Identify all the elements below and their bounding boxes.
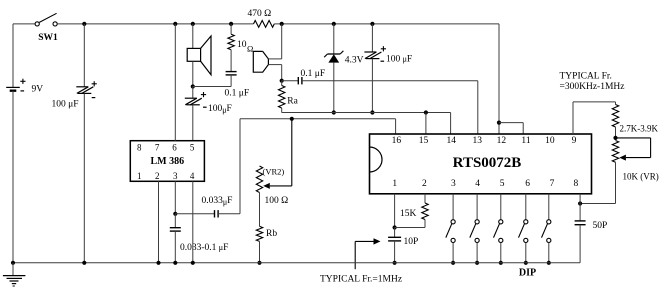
svg-text:7: 7 [155,143,160,153]
svg-text:DIP: DIP [519,268,536,279]
DIP switch S1 [446,194,455,263]
node DIP S2 ground [475,261,479,265]
capacitor 0.033uF [175,196,240,218]
resistor 10 ohm [228,24,253,54]
svg-text:10P: 10P [404,237,419,247]
svg-text:Rb: Rb [266,229,277,239]
wire top rail left segment [13,23,35,25]
ground [3,263,26,286]
svg-text:2.7K-3.9K: 2.7K-3.9K [620,124,659,134]
wire line A [282,112,451,114]
wire LM386 pin6 to rail [174,24,176,141]
wire pin9 riser [573,102,616,134]
pin 10 label [545,136,555,146]
svg-text:2: 2 [422,179,427,189]
svg-text:5: 5 [500,179,505,189]
svg-text:13: 13 [472,136,482,146]
node DIP S5 ground [547,261,551,265]
svg-text:Ra: Ra [287,97,298,107]
svg-text:4: 4 [190,171,195,181]
pin 16 label [392,136,402,146]
pin 5 label [500,179,505,189]
node ground left [11,261,15,265]
node ground battery cap [82,261,86,265]
capacitor 0.1uF (10 ohm) [225,50,250,99]
svg-text:1: 1 [137,171,142,181]
wire rail to speaker [192,24,194,49]
capacitor 0.1uF (coupling) [282,69,478,84]
pin 15 label [419,136,429,146]
pin 11 label [521,136,530,146]
wire LM386 pin4 down [192,181,194,262]
svg-text:4: 4 [475,179,480,189]
svg-text:11: 11 [521,136,530,146]
node C junction [280,79,284,83]
pin 6 label [172,143,177,153]
node DIP S3 ground [499,261,503,265]
node zener on line A [332,110,336,114]
pin 1 label [392,179,397,189]
label DIP [519,268,536,279]
svg-text:6: 6 [172,143,177,153]
svg-text:50P: 50P [593,221,608,231]
node top rail junction zener [332,22,336,26]
svg-text:14: 14 [447,136,457,146]
node top rail junction pin6 [173,22,177,26]
pin 13 label [472,136,482,146]
svg-text:=300KHz-1MHz: =300KHz-1MHz [560,82,625,92]
potentiometer 10K (VR) [612,141,658,204]
capacitor 100uF (zener) [364,24,412,113]
wire pin14 riser [450,113,452,135]
svg-text:470 Ω: 470 Ω [248,9,272,19]
svg-text:0.1 μF: 0.1 μF [225,88,250,98]
node pin15 on line A [424,110,428,114]
svg-text:10: 10 [237,40,247,50]
svg-text:100μF: 100μF [208,104,232,115]
svg-text:8: 8 [137,143,142,153]
pin 9 label [572,136,577,146]
pin 5 label [190,143,195,153]
node pin1 ground [393,261,397,265]
pin 1 label [137,171,142,181]
pin 2 label [422,179,427,189]
zener diode 4.3V [324,24,363,113]
wire line B [240,118,396,120]
wiper arrow 10K [616,138,651,161]
svg-text:9V: 9V [32,85,44,95]
capacitor 100uF (speaker) [185,87,232,141]
resistor 15K [395,194,429,228]
wire top rail to node A [57,23,253,25]
speaker LS1 [187,36,211,75]
svg-text:100 Ω: 100 Ω [265,196,289,206]
wire ground rail [13,262,580,264]
svg-text:4.3V: 4.3V [345,55,364,65]
node wiper on line B [290,117,294,121]
svg-text:0.1 μF: 0.1 μF [301,69,326,79]
label TYPICAL Fr 1MHz [320,275,402,285]
svg-text:LM 386: LM 386 [150,156,184,167]
svg-text:3: 3 [451,179,456,189]
battery 9V [6,79,43,95]
DIP switch S5 [542,194,551,263]
wire left rail lower [12,91,14,263]
wire 0.033uF riser [239,119,241,214]
svg-text:100 μF: 100 μF [52,100,79,110]
svg-text:15: 15 [419,136,429,146]
svg-text:1: 1 [392,179,397,189]
wire top rail right segment [274,23,499,25]
node pin12 junction [497,121,501,125]
svg-text:15K: 15K [400,209,417,219]
resistor Rb [256,193,277,263]
pin 3 label [451,179,456,189]
node B junction [191,84,195,88]
DIP switch S2 [470,194,479,263]
node pin1 junction [393,225,397,229]
pin 4 label [190,171,195,181]
pin 14 label [447,136,457,146]
node ground pin4 [191,261,195,265]
svg-text:(VR2): (VR2) [263,167,285,177]
svg-text:7: 7 [550,179,555,189]
node ground pin2 [156,261,160,265]
pin 6 label [525,179,530,189]
svg-text:100 μF: 100 μF [386,55,412,65]
capacitor 10P [388,228,418,263]
svg-text:8: 8 [574,179,579,189]
node top rail junction speaker [191,22,195,26]
switch SW1 [35,13,58,43]
pin 7 label [550,179,555,189]
svg-text:9: 9 [572,136,577,146]
annotation arrow 1MHz [355,238,380,269]
resistor Ra [279,81,299,113]
node top rail junction cap [370,22,374,26]
potentiometer VR2 100 ohm [256,166,288,206]
svg-text:10K (VR): 10K (VR) [623,172,659,182]
svg-text:SW1: SW1 [38,33,58,43]
node pin8 junction [578,201,582,205]
wire pin12 riser [498,24,500,134]
capacitor 100uF (battery) [52,24,97,263]
wire node B to cap [193,86,231,88]
wire LM386 pin3 down [174,181,176,214]
resistor 2.7K-3.9K [612,102,658,138]
svg-text:TYPICAL Fr.=1MHz: TYPICAL Fr.=1MHz [320,275,402,285]
svg-text:16: 16 [392,136,402,146]
pin 2 label [155,171,160,181]
node ground pin3 [173,261,177,265]
node top rail junction 10 ohm [229,22,233,26]
svg-text:RTS0072B: RTS0072B [453,155,522,171]
capacitor 50P [575,204,608,263]
pin 8 label [137,143,142,153]
pin 12 label [497,136,507,146]
pin 4 label [475,179,480,189]
svg-text:10: 10 [545,136,555,146]
node DIP S1 ground [451,261,455,265]
svg-text:0.033-0.1 μF: 0.033-0.1 μF [180,243,228,253]
svg-text:12: 12 [497,136,507,146]
node 100uF on line A [370,110,374,114]
earphone XTAL [253,51,268,72]
resistor 470 ohm [248,9,275,27]
DIP switch S3 [494,194,503,263]
pin 7 label [155,143,160,153]
svg-text:3: 3 [173,171,178,181]
wire earphone bottom terminal [268,65,281,81]
node DIP S4 ground [524,261,528,265]
DIP switch S4 [519,194,528,263]
wire left rail upper [12,24,14,88]
wire speaker to node B [192,61,194,86]
wire pin16 riser [395,119,397,134]
wire pin15 riser [425,113,427,135]
node pot junction [613,136,617,140]
wire pin8 down [579,194,581,204]
wiper arrow VR2 [263,119,292,189]
wire earphone top terminal [268,24,281,59]
capacitor 0.033-0.1uF [170,214,229,263]
node A junction (battery cap top) [82,22,86,26]
svg-text:2: 2 [155,171,160,181]
pin 3 label [173,171,178,181]
wire pin13 riser [477,81,479,134]
svg-text:6: 6 [525,179,530,189]
wire pin1 down [394,194,396,228]
svg-text:TYPICAL Fr.: TYPICAL Fr. [560,72,612,82]
wire 10K to pin8 node [580,203,615,205]
node pin3 junction [173,212,177,216]
svg-text:0.033μF: 0.033μF [202,196,233,207]
node Rb ground [257,261,261,265]
wire pin11 jog [499,123,523,134]
IC U2 RTS0072B [370,134,592,194]
svg-text:Ω: Ω [247,44,253,54]
pin 8 label [574,179,579,189]
wire LM386 pin2 down [158,181,160,262]
op-amp U1 LM386 [130,141,204,182]
node top rail junction earphone [280,22,284,26]
label TYPICAL Fr 300KHz [560,72,625,92]
svg-text:5: 5 [190,143,195,153]
